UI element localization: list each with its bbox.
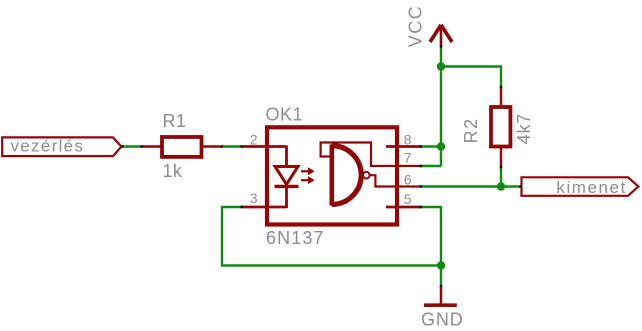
- wire junction to GND: [440, 266, 442, 287]
- LED inside OK1: [275, 146, 299, 209]
- svg-text:3: 3: [250, 190, 258, 206]
- wire R2 to output node: [500, 168, 502, 187]
- LED light arrows: [301, 168, 314, 183]
- svg-text:7: 7: [404, 149, 412, 165]
- ground symbol GND: [424, 286, 457, 305]
- pin 3: [242, 206, 287, 209]
- wire pin 6 to kimenet: [421, 185, 521, 187]
- internal wire gate input to pin 7: [321, 143, 421, 167]
- wire VCC branch to R2: [441, 67, 501, 87]
- resistor R2: [491, 87, 510, 167]
- net label flag kimenet: [522, 177, 639, 196]
- svg-text:R2: R2: [461, 117, 481, 143]
- internal wire bubble to pin 6: [370, 175, 421, 186]
- pin connection dots (dark joints): [122, 46, 521, 287]
- wire pin 5 to ground rail: [421, 207, 441, 266]
- junction output node: [497, 182, 505, 190]
- wire pin8 to VCC line: [421, 145, 441, 147]
- svg-text:1k: 1k: [163, 161, 183, 181]
- svg-text:kimenet: kimenet: [556, 178, 626, 197]
- inversion bubble: [363, 172, 370, 179]
- junction VCC/R2 branch: [437, 62, 445, 70]
- svg-text:vezérlés: vezérlés: [11, 137, 85, 156]
- NAND gate (detector): [332, 144, 361, 205]
- wire vezerles to R1: [122, 145, 142, 147]
- junction pin 8: [437, 142, 445, 150]
- svg-text:OK1: OK1: [266, 105, 304, 125]
- wire R1 to pin 2: [222, 145, 242, 147]
- svg-text:4k7: 4k7: [514, 113, 534, 144]
- pin 8: [386, 145, 421, 148]
- VCC symbol: [430, 25, 452, 47]
- svg-text:6N137: 6N137: [266, 228, 325, 248]
- pin 2: [242, 145, 287, 148]
- svg-text:R1: R1: [163, 111, 187, 131]
- optocoupler OK1 body: [267, 127, 397, 224]
- svg-text:2: 2: [250, 131, 258, 147]
- svg-text:8: 8: [404, 131, 412, 147]
- svg-text:VCC: VCC: [406, 5, 426, 48]
- svg-text:GND: GND: [421, 310, 464, 330]
- wire VCC down to pin 7/8: [440, 47, 442, 167]
- svg-text:5: 5: [404, 191, 412, 207]
- wire pin 3 to ground rail: [222, 207, 441, 266]
- resistor R1: [142, 137, 222, 157]
- pin 5: [386, 206, 421, 209]
- wire pin7 to VCC line: [421, 165, 441, 167]
- junction ground node: [437, 261, 445, 269]
- net label flag vezerles: [2, 137, 121, 156]
- svg-text:6: 6: [404, 171, 412, 187]
